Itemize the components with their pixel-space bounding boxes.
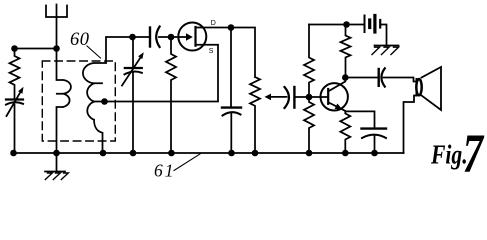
node dot gate resistor bbox=[168, 34, 175, 41]
rail node dots bbox=[10, 150, 17, 157]
FET Q1 bbox=[178, 23, 206, 51]
inductor L1 primary coil bbox=[57, 49, 71, 154]
resistor R4 (lower divider) bbox=[304, 97, 314, 153]
wire from coil top to cap C1 bbox=[106, 37, 150, 63]
node dot drain bbox=[228, 24, 235, 31]
collector lead bbox=[329, 78, 345, 91]
dashed tuning-box bbox=[42, 61, 115, 141]
variable capacitor VC1 (left) bbox=[6, 98, 23, 100]
node dot at VC2 bbox=[129, 34, 136, 41]
node dot collector bbox=[342, 74, 349, 81]
speaker SP bbox=[416, 79, 418, 96]
inductor L2 secondary coil with tap bbox=[83, 63, 106, 153]
node dot base bbox=[306, 94, 313, 101]
battery B1 bbox=[364, 16, 366, 33]
svg-text:D: D bbox=[211, 20, 216, 27]
svg-text:S: S bbox=[209, 48, 214, 55]
bottom rail bbox=[14, 152, 404, 154]
node dot coil tap bbox=[101, 98, 108, 105]
node dot top rail bbox=[343, 21, 350, 28]
svg-text:60: 60 bbox=[70, 30, 90, 50]
antenna bbox=[46, 5, 67, 49]
capacitor C1 coupling bbox=[149, 28, 151, 47]
variable capacitor VC2 bbox=[132, 37, 134, 67]
resistor R6 (collector) bbox=[341, 25, 351, 78]
resistor R5 (emitter) bbox=[340, 111, 350, 153]
capacitor C4 (emitter bypass) bbox=[362, 127, 387, 129]
capacitor C3 coupling to base bbox=[285, 87, 289, 108]
potentiometer P1 bbox=[250, 77, 260, 153]
speaker return wire bbox=[404, 96, 417, 154]
ground (main) bbox=[56, 153, 58, 172]
wire node A horizontal bbox=[15, 48, 57, 50]
leader for 61 bbox=[174, 154, 200, 171]
top rail wire bbox=[309, 24, 364, 26]
base wire bbox=[309, 96, 327, 98]
wire C3 to base node bbox=[294, 96, 309, 98]
emitter wire to bypass cap bbox=[346, 111, 375, 128]
ground (battery) bbox=[375, 45, 399, 47]
wiper arrow bbox=[265, 94, 272, 101]
leader for 60 bbox=[87, 46, 101, 58]
capacitor C2 (drain bypass) bbox=[230, 28, 232, 108]
svg-text:7: 7 bbox=[463, 124, 485, 184]
wire drain to potentiometer top bbox=[231, 28, 255, 78]
emitter lead with arrow bbox=[329, 103, 346, 112]
wire collector to output cap bbox=[345, 77, 378, 79]
wire battery to ground bbox=[381, 25, 387, 46]
resistor R3 (upper divider) bbox=[304, 25, 314, 98]
resistor R2 (gate) bbox=[166, 37, 176, 153]
wire FET drain to node bbox=[196, 27, 232, 29]
wire FET source to coil tap bbox=[94, 45, 218, 102]
node dot antenna feed bbox=[53, 45, 60, 52]
node dot left bbox=[11, 45, 18, 52]
wire C1 to FET gate with arrow shaft bbox=[159, 36, 186, 38]
svg-text:61: 61 bbox=[154, 161, 176, 181]
transistor Q2 BJT bbox=[321, 83, 348, 110]
wire cap to speaker bbox=[384, 78, 417, 82]
capacitor C5 (output coupling) bbox=[378, 69, 380, 86]
resistor R1 (left) bbox=[10, 49, 20, 100]
